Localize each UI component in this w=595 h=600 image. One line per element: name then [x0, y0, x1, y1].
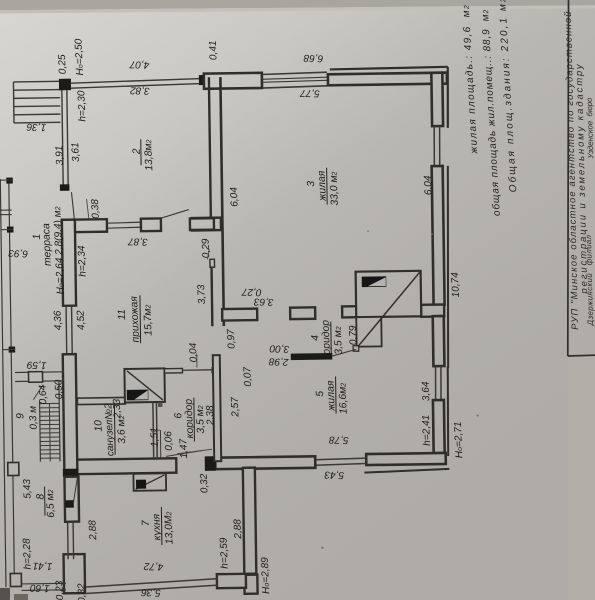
pier 0.41 — [199, 75, 204, 85]
paper specks — [477, 415, 479, 417]
svg-text:h=2,41: h=2,41 — [421, 415, 433, 447]
svg-text:3,61: 3,61 — [70, 142, 82, 162]
room4 label underline — [330, 322, 332, 356]
wc door leaf at left wall — [73, 477, 78, 503]
room3 label underline — [326, 168, 329, 205]
window end cap black — [60, 184, 70, 191]
right wall below pier — [433, 316, 445, 366]
title block border — [567, 0, 570, 356]
left wall upper — [62, 220, 76, 306]
room3-corridor4 wall e — [342, 306, 357, 317]
left wall window 2 (kitchen) — [67, 521, 70, 559]
svg-text:11: 11 — [117, 309, 128, 320]
svg-text:13,8м2: 13,8м2 — [143, 139, 155, 171]
svg-text:6,68: 6,68 — [303, 52, 323, 64]
pier in hall top wall — [141, 218, 161, 231]
central wall: room2|room3 — [209, 77, 211, 217]
svg-text:терраса: терраса — [41, 223, 54, 266]
room5 top wall dark bar — [291, 353, 333, 360]
svg-text:13,0М2: 13,0М2 — [163, 511, 175, 544]
window top (room3) — [262, 72, 327, 74]
svg-text:3,63: 3,63 — [254, 296, 274, 308]
svg-text:5,78: 5,78 — [328, 434, 348, 446]
svg-text:10,74: 10,74 — [450, 272, 462, 298]
central wall below door 0.29 — [210, 263, 213, 326]
svg-text:4,72: 4,72 — [143, 560, 163, 572]
svg-text:0,04: 0,04 — [188, 342, 200, 362]
svg-text:0,07: 0,07 — [242, 366, 254, 386]
kitchen bottom window — [86, 579, 218, 587]
terrace/room2 window wall — [62, 90, 63, 185]
svg-text:0,06: 0,06 — [163, 430, 175, 450]
svg-text:0,25: 0,25 — [57, 54, 69, 74]
corner pier bottom-left — [64, 554, 86, 593]
pier at interior wall join — [421, 304, 444, 316]
right wall window 2 — [434, 366, 437, 400]
door jamb stub — [190, 218, 214, 230]
svg-text:0,32: 0,32 — [199, 473, 211, 493]
svg-text:3,00: 3,00 — [269, 342, 289, 354]
svg-text:2,38: 2,38 — [205, 405, 217, 426]
small black cap on left wall — [65, 500, 74, 508]
stairs left edge — [12, 82, 15, 123]
svg-text:4,36: 4,36 — [52, 310, 64, 330]
svg-text:0,41: 0,41 — [208, 40, 220, 60]
corridor6 door leaf — [183, 369, 212, 371]
svg-text:Ho=2,89: Ho=2,89 — [260, 557, 272, 595]
svg-text:15,7м2: 15,7м2 — [142, 304, 154, 336]
svg-text:Ho=2,71: Ho=2,71 — [453, 421, 465, 458]
rail post 1 — [6, 177, 13, 183]
room5 bottom wall east — [366, 453, 446, 465]
svg-text:0,32: 0,32 — [76, 583, 88, 600]
svg-text:5,43: 5,43 — [324, 469, 344, 481]
svg-text:0,64: 0,64 — [37, 384, 49, 404]
svg-text:0,23: 0,23 — [54, 580, 66, 600]
svg-text:h=2,59: h=2,59 — [219, 537, 231, 569]
room5 bottom exterior offset line — [364, 469, 449, 473]
svg-text:1,41: 1,41 — [33, 560, 53, 572]
room5 label underline — [335, 377, 338, 414]
top wall segment west — [204, 73, 262, 89]
stove unit hall — [124, 368, 164, 402]
corridor6 top wall piece + door leaf — [164, 368, 182, 373]
right wall exterior offset line mid — [446, 166, 450, 308]
porch landing lines — [15, 371, 64, 374]
left wall window 1 — [65, 305, 68, 354]
porch railing outer double line — [0, 179, 6, 587]
svg-text:6,93: 6,93 — [8, 247, 28, 259]
hall top wall east white — [192, 218, 221, 231]
leader 1,47 — [177, 449, 212, 453]
room5 door leaf — [332, 349, 356, 356]
svg-text:4: 4 — [310, 335, 321, 341]
svg-text:3,91: 3,91 — [54, 145, 66, 165]
dark area outside page bottom-right — [568, 357, 595, 600]
svg-text:h=2,28: h=2,28 — [22, 538, 34, 570]
central wall lower (corridor6|room5) — [213, 355, 221, 461]
svg-text:5,77: 5,77 — [300, 87, 320, 99]
leader to door 0,38 — [87, 199, 89, 219]
svg-text:5,36: 5,36 — [141, 586, 161, 598]
room2 label underline — [140, 139, 142, 165]
svg-text:5: 5 — [315, 390, 326, 396]
room11 label underline — [139, 295, 142, 343]
svg-text:16,6м2: 16,6м2 — [337, 383, 349, 415]
rail tie a — [0, 209, 12, 211]
black cap left wall — [63, 469, 79, 477]
svg-text:0,27: 0,27 — [241, 286, 261, 298]
dark table edge top — [0, 0, 595, 10]
room10 label underline — [113, 406, 116, 455]
svg-text:Ho=2,50: Ho=2,50 — [73, 38, 85, 76]
threshold double line — [107, 221, 141, 224]
room8 label underline — [44, 487, 46, 516]
svg-text:3,64: 3,64 — [421, 381, 433, 401]
left wall lower white — [64, 477, 79, 522]
room7 label underline — [160, 507, 163, 545]
right wall exterior offset line low-mid — [447, 308, 449, 368]
room5 bottom window — [315, 458, 366, 460]
terrace door leaf — [71, 192, 74, 219]
svg-text:3,87: 3,87 — [128, 235, 148, 247]
basement stairs hatch — [39, 402, 42, 462]
svg-text:Узденское бюро: Узденское бюро — [585, 97, 595, 160]
rail post 2 — [7, 226, 14, 232]
svg-text:3,73: 3,73 — [196, 284, 208, 304]
top wall segment east — [328, 73, 447, 86]
right wall exterior offset line lower — [447, 366, 449, 456]
svg-text:2,98: 2,98 — [268, 355, 289, 367]
room3-corridor4 wall m — [290, 307, 315, 319]
hall-wc dividing wall — [77, 397, 125, 404]
kitchen stove symbol — [133, 473, 166, 490]
svg-text:h=2,30: h=2,30 — [76, 90, 88, 122]
wc door leaf — [159, 430, 161, 458]
wc right wall line1 — [152, 403, 155, 458]
kitchen bottom wall east piece — [217, 574, 246, 588]
leader 0,29 — [207, 249, 209, 259]
svg-text:2,88: 2,88 — [232, 519, 244, 540]
svg-text:6,04: 6,04 — [423, 175, 435, 195]
svg-text:0,38: 0,38 — [90, 198, 102, 218]
stove/chimney unit corridor4 — [356, 271, 422, 317]
room6 label underline — [193, 397, 196, 441]
black pier kitchen door jamb — [205, 456, 216, 471]
svg-text:2,57: 2,57 — [230, 397, 242, 418]
svg-text:0,29: 0,29 — [201, 238, 213, 258]
leader 1,51 — [152, 430, 160, 432]
right wall exterior offset line upper — [447, 67, 449, 128]
svg-text:0,3 м: 0,3 м — [28, 406, 40, 430]
right wall window 1 — [433, 126, 436, 166]
svg-text:1,47: 1,47 — [178, 438, 190, 458]
svg-text:33,0 м2: 33,0 м2 — [329, 171, 341, 206]
svg-text:6: 6 — [173, 412, 184, 418]
svg-text:1,60: 1,60 — [30, 582, 50, 594]
svg-text:h=2,34: h=2,34 — [76, 245, 88, 277]
right wall upper — [431, 73, 443, 126]
svg-text:0,97: 0,97 — [226, 329, 238, 349]
left wall mid — [63, 354, 78, 470]
terrace top edge double line — [71, 79, 201, 84]
svg-text:3,82: 3,82 — [130, 84, 150, 96]
svg-text:2,88: 2,88 — [87, 520, 99, 541]
svg-text:1,59: 1,59 — [26, 359, 46, 371]
svg-text:10: 10 — [93, 420, 104, 432]
svg-text:0,50: 0,50 — [53, 379, 65, 399]
black corner pier top-left — [59, 79, 71, 91]
svg-text:0,79: 0,79 — [348, 325, 360, 345]
kitchen right wall — [243, 468, 256, 574]
kitchen top wall — [74, 458, 176, 474]
right wall mid — [432, 166, 445, 305]
entrance stairs treads — [13, 80, 59, 83]
porch bottom double line — [21, 582, 65, 585]
leader 0,04 corridor6 — [196, 353, 198, 367]
svg-text:3: 3 — [306, 181, 317, 187]
svg-text:4,07: 4,07 — [129, 58, 149, 70]
top wall exterior offset line — [330, 67, 448, 70]
room3-corridor4 wall w — [222, 309, 257, 321]
stairs centre stringer — [48, 404, 51, 462]
svg-text:4,52: 4,52 — [75, 310, 87, 330]
svg-text:9: 9 — [15, 413, 26, 419]
room5 bottom wall west — [215, 456, 315, 469]
leader 0,3m to landing — [33, 385, 43, 400]
rail post 3 — [9, 346, 16, 352]
hall door leaf — [162, 210, 189, 218]
svg-text:5,43: 5,43 — [22, 478, 34, 498]
svg-text:2,33: 2,33 — [112, 398, 124, 419]
svg-text:6,04: 6,04 — [229, 187, 241, 207]
kitchen door leaf — [166, 450, 203, 456]
dark marks bottom-left (steps cut off) — [0, 588, 10, 600]
title text: agency name — [563, 10, 595, 330]
svg-text:1,36: 1,36 — [26, 121, 46, 133]
hall top wall west white — [62, 219, 107, 232]
right wall lower — [433, 400, 445, 453]
kitchen corner foot — [244, 575, 257, 594]
